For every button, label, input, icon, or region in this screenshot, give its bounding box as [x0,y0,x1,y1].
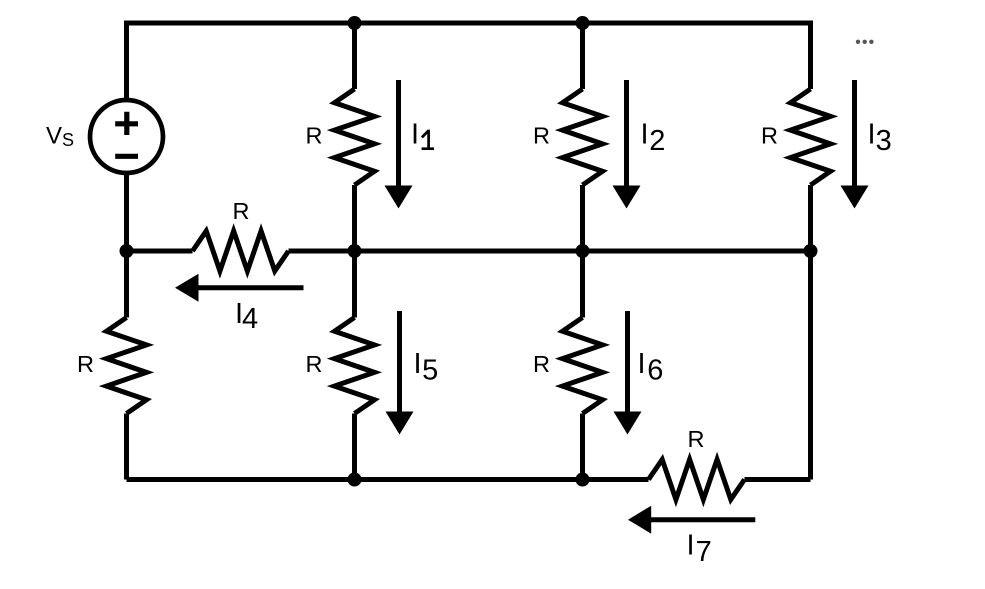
svg-text:I: I [411,119,419,151]
node dot middle right [804,244,818,258]
current arrow I5 [386,311,414,435]
wire col1 lower stub [352,251,357,318]
current arrow I3 [841,80,869,209]
current arrow I4 [175,274,304,302]
wire col2 mid upper [580,185,585,251]
resistor R6 [563,318,603,414]
wire col2 lower stub [580,251,585,318]
svg-text:R: R [306,123,323,149]
plus sign [115,112,138,135]
wire middle left segment [127,249,193,254]
current arrow I6 [614,311,642,435]
node dot middle col1 [348,244,362,258]
node dot bottom col2 [576,473,590,487]
current arrow I2 [613,80,641,209]
resistor R7 [649,460,745,500]
ellipsis continuation dots [856,40,874,44]
node dot bottom col1 [348,473,362,487]
voltage source V_S circle [90,100,163,173]
svg-text:R: R [77,351,94,377]
resistor R3 [791,89,831,185]
node dot middle col2 [576,244,590,258]
svg-text:R: R [761,123,778,149]
node dot top col1 [348,16,362,30]
node dot top col2 [576,16,590,30]
svg-text:R: R [233,198,250,224]
wire middle right segment [289,249,811,254]
wire bottom right segment [745,477,811,482]
svg-text:R: R [533,123,550,149]
resistor R1 [335,89,375,185]
svg-text:I4: I4 [235,298,258,335]
svg-text:R: R [533,351,550,377]
svg-text:R: R [306,351,323,377]
current arrow I7 [628,506,755,534]
current arrow I1 [385,80,413,209]
wire col1 mid upper [352,185,357,251]
wire left rail below source [124,173,129,318]
wire col1 top stub [352,23,357,89]
wire right rail lower [808,185,813,480]
resistor R4 [193,231,289,271]
wire top rail [127,23,811,100]
node dot middle left [120,244,134,258]
wire col2 top stub [580,23,585,89]
svg-text:R: R [688,426,705,452]
wire col2 to bottom [580,414,585,480]
wire bottom left segment [127,477,649,482]
resistor R left bottom [107,318,147,414]
resistor R5 [335,318,375,414]
wire left rail bottom stub [124,414,129,480]
wire col1 to bottom [352,414,357,480]
resistor R2 [563,89,603,185]
minus sign [115,154,138,159]
